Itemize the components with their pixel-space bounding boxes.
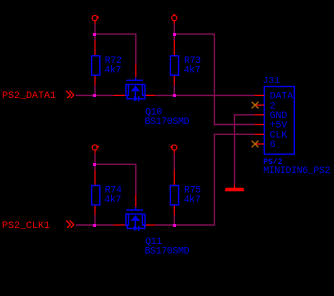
pin stubs [255,95,265,144]
transistor Q11 [125,207,145,231]
svg-text:MINIDIN6_PS2: MINIDIN6_PS2 [263,165,330,176]
svg-text:J31: J31 [263,75,280,86]
svg-text:6: 6 [270,139,276,150]
no-connect X pin6 [252,141,258,147]
power symbol VCC3 (bottom-left) [92,145,98,150]
power symbol VCC4 (bottom-right) [171,145,177,150]
svg-text:4k7: 4k7 [184,194,201,205]
svg-text:4k7: 4k7 [104,194,121,205]
svg-text:BS170SMD: BS170SMD [145,116,190,127]
wire: CLK1 row [76,224,114,226]
wire: CLK pin riser [155,134,254,225]
power symbol VCC1 (top-left, 3V3) [92,15,98,20]
no-connect X pin2 [252,102,258,108]
resistor R72 [92,56,100,75]
wire: +5V rail to connector pin 4 [174,34,254,124]
pin names [270,91,294,151]
ground [225,188,245,191]
transistor Q10 [125,77,145,101]
resistor R75 [170,186,178,205]
resistor R73 leads [173,35,175,94]
resistor R75 leads [173,215,175,224]
svg-text:4k7: 4k7 [184,65,201,76]
wire: rail to Q11 gate [95,164,136,194]
resistor R74 [92,186,100,205]
resistor R74 leads [94,165,96,224]
wire: 3V3 rail to Q10 gate [95,34,136,64]
svg-text:PS2_DATA1: PS2_DATA1 [2,91,56,102]
chevron >> [67,91,74,98]
wire: DATA1 row [76,94,114,96]
resistor R72 leads [94,35,96,94]
power symbol VCC2 (top-right, +5V) [172,15,177,21]
wire: VCC1 stem [94,20,96,24]
svg-text:PS2_CLK1: PS2_CLK1 [2,221,50,232]
junction dots bottom block [93,163,176,227]
svg-text:4k7: 4k7 [104,65,121,76]
chevron >> [67,221,74,228]
svg-text:BS170SMD: BS170SMD [145,246,190,257]
wire: GND pin to ground [235,115,255,185]
wire: VCC2 stem [173,20,175,24]
stems [94,150,96,154]
junction dots top block [93,33,176,97]
resistor R73 [170,56,178,75]
